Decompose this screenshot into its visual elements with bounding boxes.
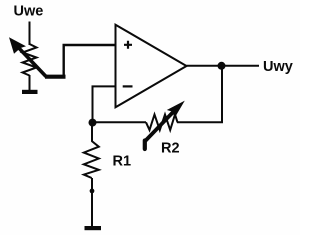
wire R1 bottom to ground [91, 178, 93, 227]
potentiometer R2 wiper arrowhead [167, 101, 185, 118]
potentiometer P1 wiper arrowhead [9, 37, 26, 54]
ground (input divider) [22, 90, 38, 94]
output wire to Uwy [187, 65, 260, 67]
svg-text:Uwe: Uwe [14, 4, 44, 20]
svg-text:Uwy: Uwy [263, 59, 293, 75]
op-amp plus input symbol [124, 41, 132, 49]
potentiometer R2 zigzag [146, 115, 178, 131]
svg-text:R2: R2 [161, 141, 180, 157]
node small dot on R1 ground wire [90, 189, 95, 194]
potentiometer R2 wiper arrow shaft [145, 108, 177, 142]
wire feedback from output node down and left to R2 [177, 66, 222, 123]
wire from Uwe label to potentiometer P1 top [29, 22, 31, 46]
node output junction [218, 62, 226, 70]
potentiometer P1 resistor zigzag [23, 44, 37, 76]
wire wiper to op-amp noninverting input [64, 45, 116, 78]
op-amp U1 triangle [116, 25, 187, 108]
potentiometer P1 wiper arrow shaft [16, 45, 46, 77]
op-amp minus input symbol [123, 85, 133, 87]
wire junction down to R1 [91, 123, 93, 142]
wire junction to op-amp inverting input [93, 86, 116, 122]
wire R2 left end to inverting node [93, 121, 147, 123]
svg-text:R1: R1 [113, 154, 132, 170]
potentiometer P1 wiper tail bar [45, 75, 66, 79]
resistor R1 zigzag [84, 141, 99, 178]
node inverting input junction [89, 119, 97, 127]
potentiometer R2 wiper tail stub [143, 141, 147, 150]
ground (R1) [85, 226, 102, 230]
wire P1 bottom lead to ground [29, 75, 31, 90]
